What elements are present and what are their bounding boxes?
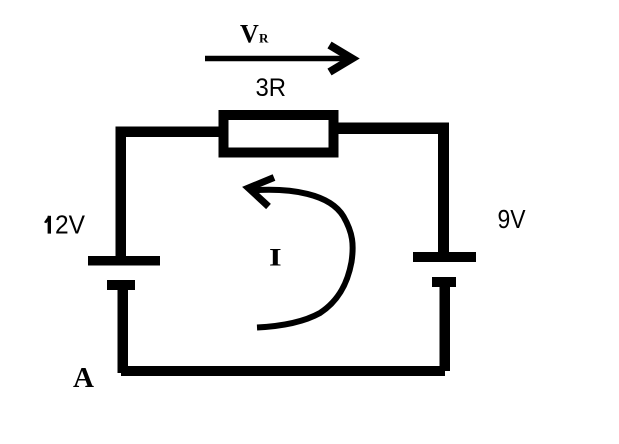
arrow VR voltage reference bbox=[205, 45, 352, 72]
svg-text:V: V bbox=[240, 20, 259, 49]
battery B1 12V bbox=[88, 256, 160, 290]
label 12V bbox=[44, 210, 86, 240]
node A label bbox=[73, 362, 94, 394]
wire left lower (battery - plate to bottom node) bbox=[118, 290, 129, 373]
wire left upper (node to battery + plate) bbox=[116, 127, 127, 257]
svg-text:A: A bbox=[73, 362, 94, 394]
wire top-right segment bbox=[338, 123, 449, 135]
wire right lower bbox=[440, 287, 451, 371]
wire right upper bbox=[438, 123, 449, 253]
svg-text:9V: 9V bbox=[498, 204, 527, 234]
current loop arrow I bbox=[249, 178, 353, 328]
label I bbox=[269, 244, 282, 272]
svg-text:3R: 3R bbox=[256, 74, 287, 102]
label 9V bbox=[498, 204, 527, 234]
label VR bbox=[240, 20, 269, 49]
svg-text:R: R bbox=[259, 31, 269, 46]
label 3R bbox=[256, 74, 287, 102]
svg-text:I: I bbox=[269, 244, 282, 272]
svg-text:2V: 2V bbox=[55, 210, 86, 240]
wire bottom segment bbox=[121, 366, 445, 376]
wire top-left segment bbox=[116, 127, 220, 138]
resistor 3R bbox=[224, 115, 334, 153]
battery B2 9V bbox=[413, 252, 476, 287]
